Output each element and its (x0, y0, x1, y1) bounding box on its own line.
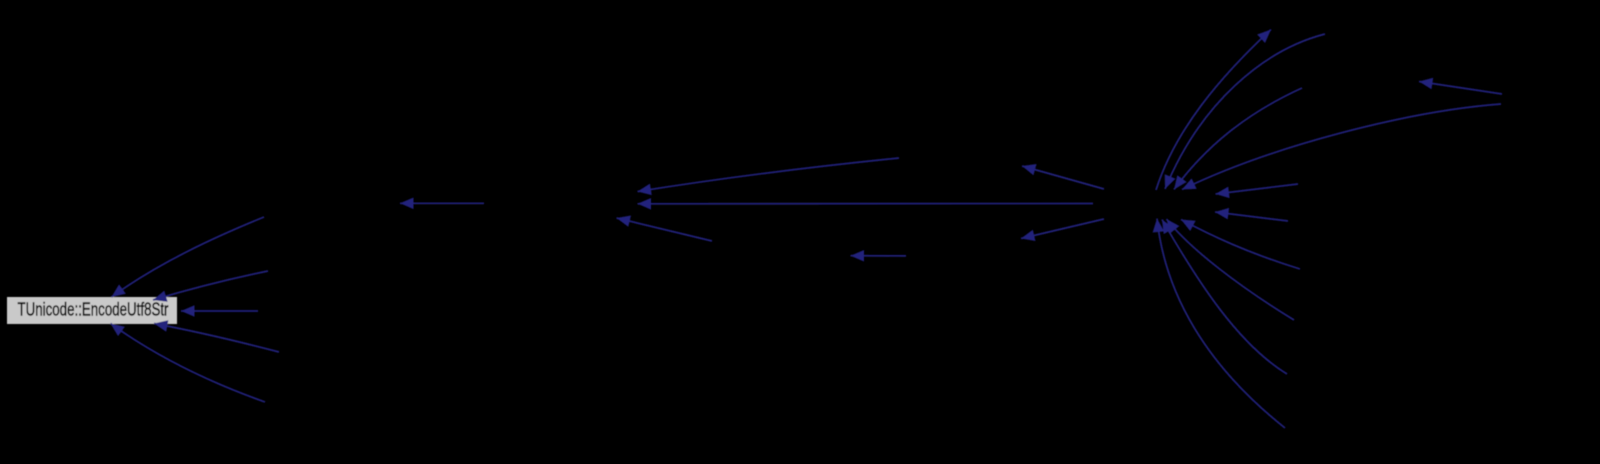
node TUnicode::EncodeUtf8Str (current) (7, 297, 177, 324)
wire B2 edge into hub bottom (1181, 220, 1300, 270)
wire R3 edge from hub to hidden node X (1022, 166, 1104, 189)
wire L4 caller edge into EncodeUtf8Str bottom-right (154, 324, 279, 353)
wire B5 edge into hub bottom (1157, 219, 1285, 429)
wire M4 edge into hidden node C bottom (617, 218, 713, 241)
wire M3 edge into hidden node C right (638, 203, 1094, 205)
wire E1 edge from hub to top node (1156, 30, 1271, 191)
wire L1 caller edge into EncodeUtf8Str top (112, 217, 265, 297)
wire R2 edge into hub right lower (1215, 212, 1288, 221)
wire E3 edge into hub top (1174, 88, 1302, 190)
wire R4 edge from hub to hidden node Z (1021, 219, 1104, 239)
wire E4 long edge into hub top (1182, 104, 1501, 190)
wire B3 edge into hub bottom (1167, 219, 1295, 320)
wire H3 short arrow top right (1419, 82, 1502, 95)
wire R1 edge into hub right upper (1216, 184, 1299, 194)
wire M1 edge into hidden node A (400, 202, 484, 204)
wire M5 edge into hidden node D (851, 255, 907, 257)
wire L2 caller edge into EncodeUtf8Str top-right (153, 271, 268, 300)
svg-text:TUnicode::EncodeUtf8Str: TUnicode::EncodeUtf8Str (18, 300, 169, 320)
wire B4 edge into hub bottom (1162, 220, 1287, 375)
wire L5 caller edge into EncodeUtf8Str bottom (111, 324, 266, 403)
wire E2 edge from top node2 into hub (1165, 34, 1325, 189)
wire M2 edge into hidden node C top (638, 158, 900, 192)
wire L3 caller edge into EncodeUtf8Str right (181, 310, 258, 312)
